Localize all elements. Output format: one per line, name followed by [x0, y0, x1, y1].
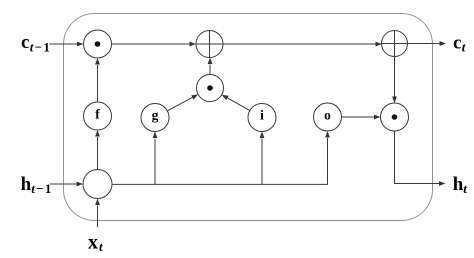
wire M2 to A1 [208, 58, 213, 75]
wire c_{t-1} to M1 [50, 42, 84, 47]
wire M1 to A1 [112, 42, 197, 47]
label c_t [453, 32, 466, 54]
multiply node M3 [381, 103, 409, 131]
svg-text:t−1: t−1 [31, 181, 52, 196]
svg-text:o: o [324, 107, 331, 122]
gate i [248, 104, 276, 132]
svg-text:t: t [99, 239, 103, 254]
wire x_t to H [95, 199, 100, 228]
wire bus to i [260, 132, 265, 185]
svg-text:x: x [88, 231, 98, 253]
svg-text:h: h [21, 174, 32, 195]
wire A2 to M3 [392, 57, 397, 104]
gate g [141, 104, 169, 132]
add node A2 [382, 31, 408, 57]
multiply node M2 [197, 75, 224, 102]
svg-text:i: i [260, 107, 264, 122]
wire o to M3 [342, 115, 381, 120]
concat node H [83, 170, 112, 199]
wire i to M2 [222, 95, 250, 111]
wire bus to o [325, 131, 330, 185]
svg-text:h: h [453, 174, 464, 195]
add node A1 [196, 31, 223, 58]
wire g to M2 [167, 94, 198, 111]
svg-text:t: t [462, 40, 466, 55]
multiply node M1 [84, 30, 112, 58]
wire H to f [95, 130, 100, 170]
svg-text:t−1: t−1 [30, 39, 51, 54]
gate f [84, 102, 112, 130]
svg-text:c: c [21, 32, 29, 53]
wire A2 to c_t output [408, 41, 447, 46]
label h_{t-1} [21, 174, 53, 196]
label x_t [88, 231, 103, 254]
svg-text:g: g [152, 107, 159, 122]
cell border [64, 14, 433, 221]
svg-text:t: t [463, 181, 467, 196]
svg-text:c: c [453, 32, 461, 53]
wire M3 to h_t output [395, 131, 446, 186]
wire f to M1 [95, 58, 100, 102]
wire bus H to gates [112, 183, 328, 185]
label c_{t-1} [21, 32, 51, 54]
label h_t [453, 174, 468, 196]
wire A1 to A2 [223, 42, 382, 47]
svg-text:f: f [95, 106, 100, 121]
gate o [314, 103, 342, 131]
wire bus to g [153, 132, 158, 185]
wire h_{t-1} to H [50, 182, 83, 187]
